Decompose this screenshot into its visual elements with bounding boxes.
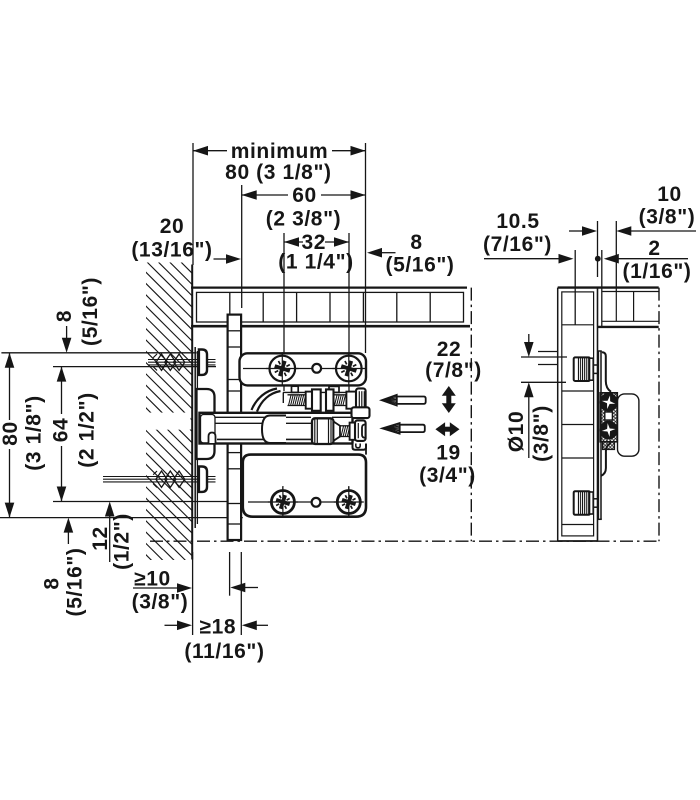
svg-text:(3 1/8"): (3 1/8") [23, 395, 46, 470]
extension line plate right edge (x=365.5) [365, 143, 367, 353]
extension line 60 left (x=241.7) [241, 185, 243, 308]
dimension 10 arrows [569, 226, 696, 236]
dimension line 60 [242, 190, 366, 200]
lower adjusting cam assembly [262, 416, 366, 445]
phillips screw bottom-left [271, 491, 294, 514]
wall section hatching [145, 215, 192, 646]
top mounting plate [240, 353, 367, 385]
vertical centerline right view [658, 288, 660, 542]
svg-text:20: 20 [160, 215, 185, 238]
screw axis vert bottom right [348, 486, 350, 518]
svg-text:(2 1/2"): (2 1/2") [76, 392, 99, 467]
svg-text:10.5: 10.5 [496, 210, 539, 233]
phillips bit lower [382, 423, 400, 434]
dimension line 32 [284, 237, 349, 247]
svg-text:(5/16"): (5/16") [79, 277, 102, 346]
svg-text:(3/8"): (3/8") [132, 591, 189, 614]
center hole top plate [312, 364, 321, 373]
extension line 10 right (x=616.3) [615, 221, 617, 292]
svg-text:64: 64 [50, 418, 73, 443]
svg-text:(3/8"): (3/8") [530, 405, 553, 462]
svg-text:(1 1/4"): (1 1/4") [278, 251, 353, 274]
center hole bottom plate [312, 498, 321, 507]
svg-text:80: 80 [0, 421, 22, 446]
svg-text:(7/8"): (7/8") [425, 359, 482, 382]
dimension 80 (3 1/8") vertical line [5, 353, 15, 518]
svg-text:(5/16"): (5/16") [64, 547, 87, 616]
svg-text:12: 12 [89, 526, 112, 551]
housing top tab [352, 407, 370, 418]
svg-text:10: 10 [657, 183, 682, 206]
extension line strip left bottom [229, 552, 231, 596]
extension line screw axis right (x=349) [348, 233, 350, 391]
cam housing outline (right view) [618, 394, 639, 456]
svg-text:(11/16"): (11/16") [184, 640, 264, 663]
phillips bit upper [381, 395, 396, 406]
svg-text:(3/8"): (3/8") [639, 206, 696, 229]
extension line 10.5 (x=575.2) [574, 250, 576, 325]
top rail (right view) [598, 292, 659, 327]
extension line bottom plate lower edge (y=517.6) [0, 517, 243, 519]
dimension >=10 arrows [133, 583, 258, 593]
screw axis line top plate [243, 368, 362, 370]
adjustable arm [144, 413, 366, 455]
dimension diameter 10 arrows [521, 334, 567, 458]
svg-text:(1/16"): (1/16") [622, 260, 691, 283]
svg-text:minimum: minimum [231, 140, 329, 163]
bottom mounting plate [243, 455, 366, 517]
phillips screw top-left [270, 356, 296, 382]
screw axis line bottom plate [248, 501, 362, 503]
side panel section (right view) [558, 221, 659, 541]
svg-text:≥18: ≥18 [199, 616, 236, 639]
dimension 8 (5/16") bottom-left arrow [64, 518, 74, 544]
svg-text:8: 8 [41, 577, 64, 589]
wall face line [191, 265, 193, 560]
hanger back flange lines [194, 347, 196, 528]
dimension >=18 arrows [165, 621, 269, 631]
upper adjusting screw assembly [252, 386, 366, 411]
svg-text:(2 3/8"): (2 3/8") [266, 208, 341, 231]
extension line bottom plate screw axis (y=501.5) [53, 501, 271, 503]
extension line top plate screw axis (y=366.6) [53, 366, 216, 368]
euro screw dowel lower (right view) [574, 491, 599, 515]
bracket back plate (right view) [598, 351, 602, 519]
svg-text:80 (3 1/8"): 80 (3 1/8") [225, 161, 331, 184]
euro screw dowel upper (right view) [574, 357, 599, 381]
extension line wall face bottom [192, 552, 194, 635]
svg-text:≥10: ≥10 [134, 568, 171, 591]
phillips screw top-right [336, 356, 362, 382]
leader arrow for 20 [214, 254, 242, 264]
dimension line minimum [193, 146, 366, 156]
svg-text:8: 8 [53, 310, 76, 322]
extension line 2 (x=601.8) [601, 250, 603, 327]
bracket profile (right view) [601, 352, 611, 476]
dimension 8 (5/16") right arrow [367, 248, 396, 258]
svg-text:(3/4"): (3/4") [419, 464, 476, 487]
extension line screw axis left (x=284) [283, 233, 285, 391]
cam adjusting screws knurled block [600, 393, 617, 442]
extension stubs right view [538, 351, 558, 353]
dimension 8 (5/16") top-left arrow [62, 326, 72, 353]
phillips screw bottom-right [337, 491, 360, 514]
svg-text:8: 8 [410, 231, 422, 254]
vertical adjustment arrow icon [442, 386, 456, 413]
dimension 12 (1/2") arrow [105, 502, 115, 563]
dimension 2 arrow [604, 254, 688, 264]
svg-text:(5/16"): (5/16") [385, 254, 454, 277]
horizontal centerline [150, 540, 659, 542]
vertical centerline main view [470, 288, 472, 542]
extension line top screw row (y=352.8) [1, 352, 196, 354]
screw axis vert bottom left [282, 486, 284, 518]
svg-text:19: 19 [436, 442, 461, 465]
top rail panel section [191, 288, 470, 327]
vertical hanger strip [228, 315, 242, 540]
svg-text:Ø10: Ø10 [505, 411, 528, 453]
svg-text:22: 22 [437, 338, 462, 361]
extension line strip right bottom [240, 552, 242, 635]
svg-text:60: 60 [292, 184, 317, 207]
horizontal adjustment arrow icon [435, 422, 459, 436]
svg-text:(7/16"): (7/16") [483, 233, 552, 256]
knurled stub [603, 442, 615, 450]
svg-text:(1/2"): (1/2") [111, 513, 134, 570]
lower wall screw with head [103, 467, 216, 492]
dimension 64 (2 1/2") vertical line [57, 367, 67, 502]
upper wall screw with head [148, 350, 216, 375]
dimension 10.5 leader arrow [484, 254, 574, 264]
svg-text:2: 2 [648, 237, 660, 260]
svg-text:(13/16"): (13/16") [131, 239, 212, 262]
hook plate on wall [197, 389, 215, 459]
reference dot [595, 256, 601, 262]
extension line wall face top (x=193) [192, 143, 194, 265]
